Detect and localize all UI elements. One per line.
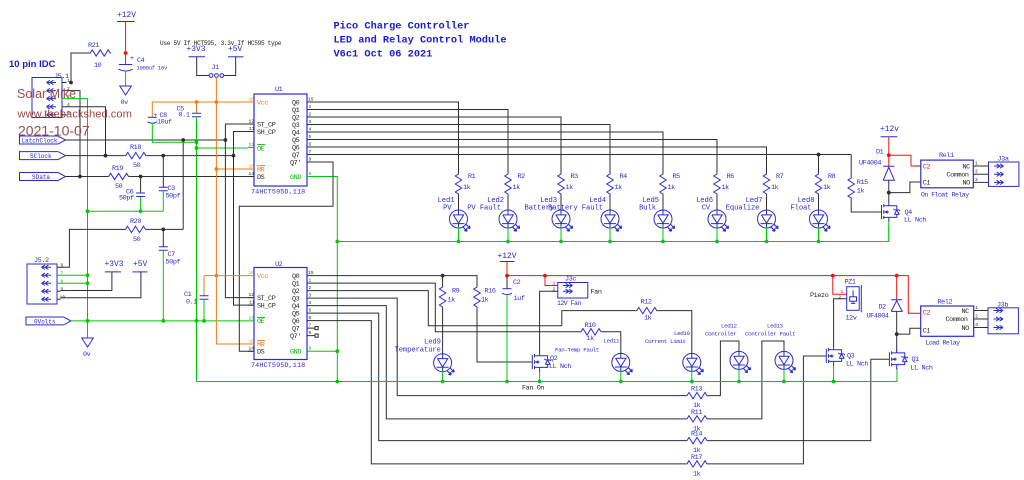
wire D2 anode to Q1 drain / Rel2 C1 (896, 311, 898, 351)
svg-text:C2: C2 (923, 310, 931, 318)
svg-text:2: 2 (309, 285, 312, 291)
connector J3b (988, 302, 1018, 334)
svg-text:16: 16 (249, 270, 255, 276)
resistor R6 1k (714, 173, 734, 195)
svg-text:LL Nch: LL Nch (904, 217, 926, 225)
wire Led1 cathode to gnd bus (458, 227, 460, 241)
svg-text:C2: C2 (923, 164, 931, 172)
svg-text:8: 8 (61, 279, 64, 285)
capacitor C6 50pf (119, 177, 145, 212)
wire U1 Q6 to R7 column (313, 147, 767, 173)
wire Led12 cathode to bus (738, 369, 740, 382)
svg-text:0Volts: 0Volts (34, 319, 56, 326)
node J5.1 pin1 / R21 (69, 81, 73, 85)
wire U2 Q0 row to R9/R16 (313, 276, 477, 286)
svg-text:R19: R19 (112, 165, 123, 173)
svg-text:1: 1 (309, 104, 312, 110)
transistor Q3 LL Nch (826, 346, 868, 369)
svg-text:SH_CP: SH_CP (257, 129, 276, 137)
svg-text:0.1: 0.1 (179, 112, 190, 120)
net flag SData (20, 173, 66, 182)
svg-text:Led9: Led9 (424, 339, 441, 347)
svg-text:3: 3 (975, 177, 978, 183)
wire J5.1 pin3 to ground riser (green) (67, 99, 88, 212)
wire U1 MR orange stub (216, 168, 248, 170)
svg-text:1k: 1k (615, 184, 623, 192)
LED Led10 Current Limit (645, 330, 703, 375)
svg-text:R7: R7 (776, 173, 784, 181)
LED Led4 Battery Fault (601, 210, 622, 231)
wire Led5 cathode to gnd bus (662, 227, 664, 241)
svg-text:J1: J1 (212, 64, 220, 72)
wire SData to R19 (66, 176, 108, 178)
svg-text:Rel1: Rel1 (939, 152, 954, 160)
power flag +12V (top left) (117, 11, 136, 22)
wire Q2 source to bus (539, 372, 541, 382)
svg-text:C2: C2 (513, 279, 521, 287)
svg-text:1: 1 (975, 161, 978, 167)
svg-text:Q1: Q1 (912, 356, 920, 364)
resistor R4 1k (607, 173, 627, 195)
svg-text:+12v: +12v (880, 125, 899, 134)
LED Led2 PV Fault (499, 210, 520, 231)
svg-text:Solar Mike: Solar Mike (17, 87, 76, 101)
wire red to D2 cathode (896, 276, 898, 300)
svg-text:2: 2 (975, 314, 978, 320)
wire R20 right to LatchClock riser (147, 228, 184, 230)
svg-text:50pf: 50pf (166, 259, 181, 267)
resistor R1 1k (455, 173, 475, 195)
wire R5 to Led5 (662, 195, 664, 211)
svg-text:16: 16 (249, 97, 255, 103)
resistor R20 50 (125, 218, 147, 244)
resistor R18 50 (125, 144, 147, 170)
svg-text:Q3: Q3 (847, 353, 855, 361)
svg-text:UF4004: UF4004 (859, 160, 881, 168)
LED Led6 CV (708, 210, 729, 231)
svg-text:NO: NO (963, 180, 971, 188)
wire R13 to Led12 (708, 341, 739, 396)
svg-text:SData: SData (32, 174, 50, 181)
LED Led13 Controller Fault (745, 323, 796, 373)
LED Led12 Controller (705, 323, 751, 373)
connector J3c 12V Fan (552, 276, 602, 308)
svg-text:NC: NC (963, 163, 971, 171)
svg-text:+5V: +5V (133, 260, 147, 269)
svg-text:1k: 1k (771, 184, 779, 192)
svg-text:UF4004: UF4004 (867, 313, 889, 321)
resistor R17 1k (686, 454, 708, 479)
svg-text:7: 7 (309, 323, 312, 329)
svg-text:Q7': Q7' (290, 333, 301, 341)
svg-text:7: 7 (309, 149, 312, 155)
svg-text:1k: 1k (448, 297, 456, 305)
resistor R10 1k (580, 322, 602, 343)
wire J5.1 pin2 to SData net (67, 91, 81, 178)
svg-text:Common: Common (946, 316, 968, 324)
svg-text:R16: R16 (485, 288, 496, 296)
wire J5.2 pin8 gnd (61, 282, 88, 284)
connector J5.2 (27, 257, 65, 304)
svg-text:+3V3: +3V3 (187, 45, 206, 54)
svg-text:14: 14 (249, 346, 255, 352)
net flag LatchClock (20, 136, 66, 145)
svg-text:R9: R9 (452, 288, 460, 296)
wire U2 Q5 to R14 (313, 313, 686, 441)
resistor R8 1k (815, 173, 835, 195)
svg-text:Fan: Fan (591, 289, 602, 297)
LED Led8 Float (810, 210, 831, 231)
svg-text:1k: 1k (722, 184, 730, 192)
svg-text:PV Fault: PV Fault (467, 204, 501, 212)
svg-text:10: 10 (249, 339, 255, 345)
IC U2 74HCT595 (248, 261, 318, 370)
transistor Q1 LL Nch (889, 349, 932, 372)
wire LatchClock riser to U1 ST_CP and U2 ST_CP (225, 124, 254, 298)
svg-text:LatchClock: LatchClock (22, 138, 58, 145)
svg-text:0v: 0v (121, 99, 129, 107)
svg-text:14: 14 (249, 171, 255, 177)
resistor R2 1k (505, 173, 525, 195)
wire Led13 cathode to bus (783, 369, 785, 382)
LED Led3 Battery (552, 210, 573, 231)
wire red to PZ1 pin1 (833, 276, 847, 295)
svg-text:R11: R11 (691, 409, 702, 417)
svg-text:50pf: 50pf (166, 193, 181, 201)
wire R17 to Q3 gate (708, 356, 826, 464)
svg-text:R21: R21 (88, 42, 99, 50)
svg-text:Controller: Controller (705, 331, 736, 338)
wire U1 Q7' cascade to U2 DS (239, 162, 333, 351)
LED Led1 PV (450, 210, 471, 231)
wire green LED cathode bus (337, 225, 889, 242)
svg-text:12: 12 (249, 292, 255, 298)
wire green ground bus (Fan On row) (197, 368, 898, 382)
svg-text:Q7': Q7' (290, 159, 301, 167)
wire orange C1 row to U2 Vcc (204, 275, 248, 277)
svg-text:50: 50 (115, 183, 123, 191)
wire +5V to J1 pin3 (224, 57, 236, 76)
LED Led9 Temperature (395, 339, 455, 375)
svg-text:LED and Relay Control Module: LED and Relay Control Module (334, 35, 507, 47)
wire orange Vcc rail from J1 (216, 77, 248, 344)
svg-text:www.thebackshed.com: www.thebackshed.com (17, 109, 132, 121)
wire U1 OE to gnd riser (green) (197, 147, 249, 149)
svg-text:1000uf 16v: 1000uf 16v (137, 65, 169, 72)
svg-text:15: 15 (308, 270, 314, 276)
resistor R12 1k (636, 299, 658, 323)
svg-text:V6c1 Oct 06 2021: V6c1 Oct 06 2021 (334, 49, 433, 61)
wire U1 Q5 to R6 column (313, 140, 717, 174)
svg-text:R18: R18 (130, 144, 141, 152)
svg-text:10uf: 10uf (157, 119, 172, 127)
LED Led5 Bulk (654, 210, 675, 231)
svg-text:9: 9 (61, 287, 64, 293)
svg-text:0v: 0v (83, 351, 91, 359)
svg-text:U1: U1 (275, 86, 283, 94)
wire J5.2 pin10 to +5V (61, 272, 141, 298)
svg-text:Vcc: Vcc (257, 273, 268, 281)
relay Rel2 (915, 299, 980, 347)
resistor R19 50 (108, 165, 130, 191)
net flag SClock (20, 152, 66, 161)
wire Led2 cathode to gnd bus (507, 227, 509, 241)
wire R12 to Led10 (658, 311, 692, 355)
wire J3c pin2 to Q2 drain (540, 291, 552, 352)
svg-text:R14: R14 (691, 431, 702, 439)
wire U2 Q4 to R11 (313, 306, 686, 419)
wire Led4 cathode to gnd bus (609, 227, 611, 241)
svg-text:1k: 1k (823, 184, 831, 192)
svg-text:50pf: 50pf (119, 195, 134, 203)
svg-text:SClock: SClock (30, 153, 52, 160)
resistor R7 1k (763, 173, 783, 195)
svg-text:74HCT595D,118: 74HCT595D,118 (251, 189, 305, 197)
wire red to J3c pin1 (545, 276, 552, 286)
power flag +3V3 (J1) (187, 45, 206, 57)
power flag +5V (J5.2) (133, 260, 148, 272)
svg-text:Fan-Temp Fault: Fan-Temp Fault (555, 347, 599, 354)
wire R14 to Q1 gate (708, 359, 889, 440)
wire LatchClock riser to R20 row (182, 140, 184, 229)
wire R18 right to SH_CP riser (147, 155, 234, 157)
svg-text:GND: GND (290, 349, 301, 357)
svg-text:8: 8 (309, 346, 312, 352)
wire R6 to Led6 (716, 195, 718, 211)
wire R21 left to J5.1 pin1 (71, 53, 89, 83)
wire D1 anode to Q4 drain / Rel1 C1 (888, 180, 890, 201)
svg-text:10 pin IDC: 10 pin IDC (9, 59, 56, 70)
wire R10 to Led11 (602, 332, 621, 354)
svg-text:12v: 12v (846, 315, 857, 323)
wire Led6 cathode to gnd bus (716, 227, 718, 241)
svg-text:Current Limit: Current Limit (645, 338, 686, 345)
jumper J1 (209, 64, 224, 77)
wire R11 to Led13 (708, 341, 784, 419)
wire Led7 cathode to gnd bus (766, 227, 768, 241)
transistor Q2 LL Nch (532, 352, 571, 372)
resistor R5 1k (660, 173, 680, 195)
wire U1 Q3 to R4 column (313, 125, 610, 174)
wire U1 Q1 to R2 column (313, 110, 508, 174)
node junction R21/C4/+12V (124, 51, 128, 55)
wire R4 to Led4 (609, 195, 611, 211)
LED Led11 (604, 338, 633, 375)
svg-text:R3: R3 (571, 173, 579, 181)
resistor R3 1k (558, 173, 578, 195)
svg-text:R2: R2 (518, 173, 526, 181)
diode D1 UF4004 (859, 149, 894, 181)
svg-text:5: 5 (309, 134, 312, 140)
svg-text:Common: Common (947, 171, 969, 179)
svg-text:13: 13 (249, 315, 255, 321)
svg-text:1: 1 (975, 305, 978, 311)
wire +12v to D1 cathode (red) (888, 137, 890, 167)
svg-text:Load Relay: Load Relay (926, 340, 961, 347)
capacitor C4 1000uf 16v (119, 55, 169, 72)
svg-text:Rel2: Rel2 (938, 299, 953, 307)
svg-text:1k: 1k (644, 315, 652, 323)
svg-text:R13: R13 (691, 386, 702, 394)
svg-text:3: 3 (975, 322, 978, 328)
svg-text:R15: R15 (857, 179, 868, 187)
capacitor C7 50pf (159, 229, 181, 321)
svg-text:11: 11 (249, 300, 255, 306)
wire Led11 cathode to bus (620, 371, 622, 382)
power flag +5V (J1) (228, 45, 244, 57)
svg-text:Led12: Led12 (721, 323, 738, 330)
wire U1 Q0 to R1 column (313, 102, 459, 173)
svg-text:10: 10 (94, 62, 102, 70)
svg-text:Q2: Q2 (550, 355, 558, 363)
LED Led7 Equalize (758, 210, 779, 231)
capacitor C2 1uf (502, 276, 525, 384)
svg-text:2: 2 (553, 287, 556, 293)
power flag +12v (relay 1) (880, 125, 899, 137)
svg-text:1uf: 1uf (514, 295, 525, 303)
svg-text:50: 50 (133, 162, 141, 170)
wire Led10 cathode to bus (691, 371, 693, 382)
svg-text:R6: R6 (727, 173, 735, 181)
wire J5.2 pin7 gnd (61, 274, 88, 276)
svg-text:C1: C1 (923, 328, 931, 336)
svg-text:R1: R1 (468, 173, 476, 181)
svg-text:2: 2 (309, 112, 312, 118)
svg-text:1k: 1k (463, 184, 471, 192)
svg-text:6: 6 (309, 315, 312, 321)
svg-text:D1: D1 (876, 149, 884, 157)
wire R1 to Led1 (458, 195, 460, 211)
svg-text:Pico Charge Controller: Pico Charge Controller (334, 21, 470, 33)
wire U1 GND to green riser (307, 177, 337, 382)
wire R16 to Q2 gate (477, 308, 532, 362)
capacitor C3 50pf (159, 156, 181, 212)
wire C4 to ground (green) (125, 71, 127, 87)
svg-text:CV: CV (702, 204, 711, 212)
connector J3a (989, 156, 1019, 187)
resistor R9 1k (439, 276, 459, 308)
svg-text:13: 13 (249, 142, 255, 148)
svg-text:C1: C1 (923, 180, 931, 188)
svg-text:R4: R4 (620, 173, 628, 181)
svg-text:+12V: +12V (117, 11, 136, 20)
svg-text:Use 5V If HCT595, 3.3v If HC59: Use 5V If HCT595, 3.3v If HC595 type (160, 40, 282, 47)
wire U1 Q4 to R5 column (313, 132, 663, 173)
svg-text:1k: 1k (566, 184, 574, 192)
svg-text:4: 4 (309, 300, 312, 306)
svg-text:Equalize: Equalize (726, 204, 760, 212)
resistor R21 (88, 42, 111, 70)
wire +12V red rail (bottom) (507, 262, 915, 314)
wire Q4 source to bus (green) (888, 222, 890, 242)
wire LatchClock to ST_CP riser (66, 139, 226, 141)
transistor Q4 LL Nch (882, 202, 927, 225)
wire ground link row (green) (88, 211, 164, 321)
svg-text:R10: R10 (585, 322, 596, 330)
wire R7 to Led7 (766, 195, 768, 211)
wire Led3 cathode to gnd bus (560, 227, 562, 241)
ground 0v (lower left) (82, 338, 94, 359)
svg-text:4: 4 (309, 127, 312, 133)
svg-text:Controller Fault: Controller Fault (745, 331, 795, 338)
wire Led8 cathode to gnd bus (818, 227, 820, 241)
svg-text:12V Fan: 12V Fan (557, 300, 581, 307)
wire Q4 drain (888, 201, 890, 204)
wire +12V to R21/C4 node (red) (125, 22, 127, 65)
svg-text:2: 2 (839, 294, 842, 300)
svg-text:1k: 1k (587, 335, 595, 343)
svg-text:PV: PV (443, 204, 452, 212)
resistor R11 1k (686, 409, 708, 434)
svg-text:6: 6 (61, 263, 64, 269)
piezo PZ1 12v (810, 279, 861, 323)
svg-text:0.1: 0.1 (186, 299, 197, 307)
svg-text:NO: NO (962, 325, 970, 333)
svg-text:OE: OE (257, 145, 265, 153)
wire 0Volts bus to U2 OE (green) (71, 320, 248, 322)
svg-text:1k: 1k (693, 470, 701, 478)
capacitor C8 10uf (147, 102, 196, 142)
svg-text:Bulk: Bulk (639, 204, 656, 212)
wire SClock to R18 (66, 155, 125, 157)
svg-text:OE: OE (257, 318, 265, 326)
ground 0v (top) (120, 86, 132, 107)
svg-text:10: 10 (249, 164, 255, 170)
power flag +12V (fan) (498, 252, 517, 262)
wire U2 GND to green riser (313, 350, 337, 352)
svg-text:1: 1 (309, 278, 312, 284)
svg-text:6: 6 (309, 142, 312, 148)
svg-text:R8: R8 (828, 173, 836, 181)
svg-text:+3V3: +3V3 (105, 260, 124, 269)
connector J5.1 (32, 73, 70, 118)
svg-text:SH_CP: SH_CP (257, 303, 276, 311)
svg-text:2: 2 (975, 169, 978, 175)
wire D1 node to Rel1 C2 (red) (889, 155, 915, 166)
svg-text:NC: NC (962, 308, 970, 316)
svg-text:Battery Fault: Battery Fault (548, 204, 603, 212)
IC U1 74HCT595 (248, 86, 314, 197)
svg-text:50: 50 (133, 236, 141, 244)
svg-text:+: + (130, 55, 134, 63)
svg-text:1k: 1k (857, 188, 865, 196)
wire Led9 cathode to bus (442, 371, 444, 382)
wire U2 Q3 to R13 (313, 298, 686, 396)
svg-text:GND: GND (290, 174, 301, 182)
wire 0Volts to ground (87, 321, 89, 338)
svg-text:D2: D2 (879, 304, 887, 312)
wire R15 to Q4 gate (851, 199, 881, 212)
wire R3 to Led3 (560, 195, 562, 211)
wire R9 to Led9 (442, 308, 444, 354)
svg-text:+5V: +5V (228, 45, 242, 54)
resistor R16 1k (474, 286, 496, 308)
wire R2 to Led2 (507, 195, 509, 211)
svg-text:Temperature: Temperature (395, 347, 441, 355)
diode D2 UF4004 (867, 300, 903, 321)
title block text (334, 21, 507, 61)
wire J5.2 pin9 to +3V3 (61, 272, 112, 291)
svg-text:LL Nch: LL Nch (846, 361, 868, 369)
svg-text:74HCT595D,118: 74HCT595D,118 (251, 362, 305, 370)
wire Rel1 contacts to J3a (979, 166, 988, 182)
svg-text:1k: 1k (668, 184, 676, 192)
wire R19 right to U1 DS (130, 176, 248, 178)
svg-text:Float: Float (790, 204, 811, 212)
svg-text:LL Nch: LL Nch (549, 363, 571, 371)
capacitor C1 0.1 (184, 276, 209, 321)
wire SClock riser to U1 SH_CP and U2 SH_CP (234, 132, 255, 306)
